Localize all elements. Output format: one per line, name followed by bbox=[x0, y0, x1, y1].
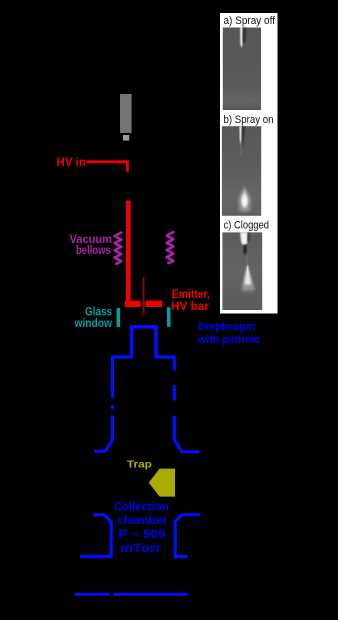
bellows right bbox=[167, 232, 174, 263]
svg-text:P ~ 500: P ~ 500 bbox=[118, 527, 166, 541]
glass window left tick bbox=[117, 308, 121, 327]
photo c needle bright bbox=[240, 232, 247, 247]
svg-text:c) Clogged: c) Clogged bbox=[224, 220, 270, 232]
bottom flange line left segment bbox=[75, 593, 110, 596]
photo b needle bright bbox=[239, 126, 242, 145]
wire HV feed bbox=[87, 160, 128, 171]
photo b filament bbox=[240, 145, 242, 155]
photo c needle dark side streak bbox=[247, 232, 250, 243]
photo c cone outer bbox=[241, 265, 255, 290]
photo b plume core bbox=[241, 191, 249, 209]
chamber left wall lower segment with flange bbox=[94, 416, 112, 452]
chamber left shoulder bbox=[111, 355, 132, 358]
collection chamber left wall bbox=[93, 515, 111, 555]
HV bar horizontal right segment bbox=[146, 301, 163, 307]
svg-text:Collection: Collection bbox=[114, 500, 169, 514]
glass window right tick bbox=[167, 307, 171, 327]
emitter capillary (thin dark red line) bbox=[143, 277, 145, 313]
chamber left wall small dash bbox=[111, 405, 114, 409]
svg-text:with pinhole: with pinhole bbox=[197, 334, 260, 346]
svg-text:b) Spray on: b) Spray on bbox=[224, 114, 274, 126]
chamber neck bbox=[132, 327, 156, 358]
svg-text:Diaphragm: Diaphragm bbox=[198, 321, 255, 333]
chamber right wall dash 2 bbox=[173, 385, 176, 400]
photo c jet filament bbox=[245, 255, 248, 266]
photo a needle bright bbox=[240, 28, 243, 49]
svg-text:bellows: bellows bbox=[76, 243, 111, 257]
photo c cone inner bright bbox=[244, 265, 251, 285]
photo c needle dark tip bbox=[243, 245, 247, 257]
HV bar horizontal left segment bbox=[125, 301, 141, 307]
svg-text:HV bar: HV bar bbox=[171, 301, 210, 313]
photo b plume glow bbox=[236, 187, 253, 213]
svg-text:Trap: Trap bbox=[127, 459, 152, 471]
photo a needle right smear bbox=[246, 32, 248, 44]
photo b plume tip bbox=[242, 186, 246, 197]
bellows left bbox=[115, 233, 122, 264]
photo a needle dark bbox=[243, 28, 247, 46]
svg-text:Emitter,: Emitter, bbox=[172, 289, 210, 301]
photo b bbox=[222, 126, 261, 216]
photo c bbox=[222, 232, 262, 310]
trap body (olive pentagon) bbox=[149, 469, 175, 497]
photo c cone apex spark bbox=[247, 266, 248, 276]
photo b plume base glow bbox=[238, 206, 252, 212]
photo b needle dark bbox=[242, 126, 245, 147]
svg-text:a) Spray off: a) Spray off bbox=[224, 15, 276, 27]
photo a bbox=[223, 28, 261, 111]
svg-text:mTorr: mTorr bbox=[120, 541, 162, 555]
svg-text:window: window bbox=[74, 316, 113, 330]
HV bar vertical (thick red line) bbox=[126, 201, 131, 302]
chamber right wall dash 1 bbox=[173, 357, 176, 371]
photo panel background bbox=[220, 13, 278, 314]
photo c cone fade bbox=[242, 287, 255, 293]
syringe body bbox=[120, 94, 132, 133]
svg-text:chamber: chamber bbox=[117, 513, 168, 527]
syringe needle hub bbox=[123, 135, 129, 141]
collection chamber right wall bbox=[175, 515, 200, 555]
chamber right wall lower segment with flange bbox=[174, 416, 199, 452]
collection chamber left bottom flange bbox=[80, 555, 113, 558]
chamber right shoulder bbox=[156, 355, 176, 358]
chamber left wall upper segment bbox=[111, 357, 114, 398]
svg-text:HV in: HV in bbox=[57, 155, 87, 169]
collection chamber right bottom flange bbox=[174, 555, 188, 558]
bottom flange line right segment bbox=[114, 593, 189, 596]
